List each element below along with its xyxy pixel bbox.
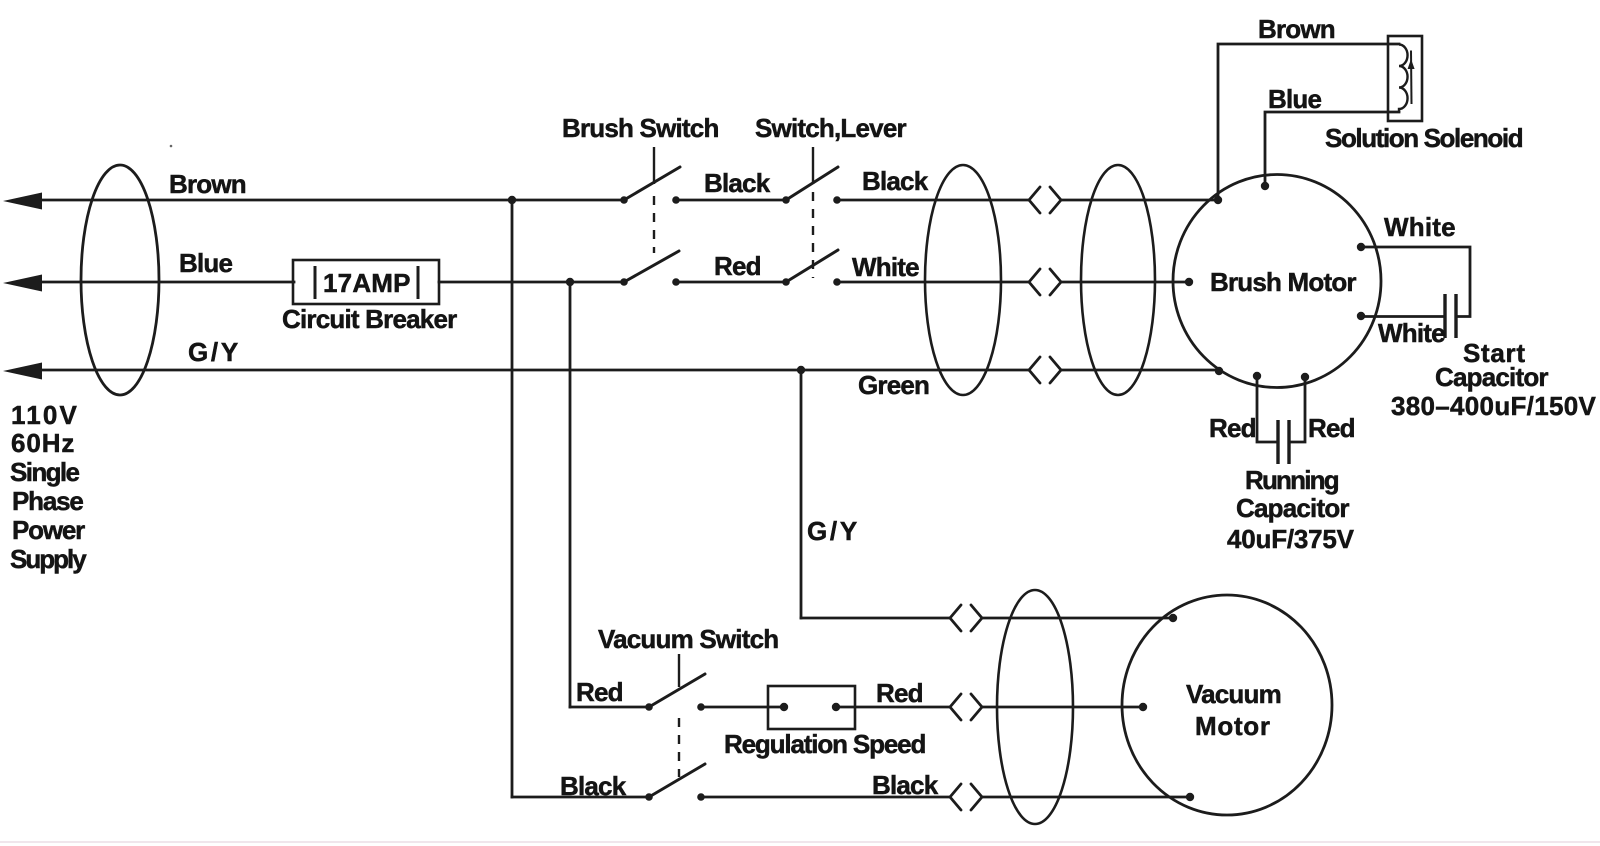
svg-text:Solution Solenoid: Solution Solenoid xyxy=(1325,123,1523,153)
svg-text:Capacitor: Capacitor xyxy=(1435,362,1548,392)
svg-text:Brown: Brown xyxy=(169,169,246,199)
svg-text:17AMP: 17AMP xyxy=(323,268,411,298)
svg-text:Regulation Speed: Regulation Speed xyxy=(724,729,925,759)
svg-text:Circuit Breaker: Circuit Breaker xyxy=(282,304,457,334)
svg-text:Brown: Brown xyxy=(1258,14,1335,44)
svg-text:Vacuum: Vacuum xyxy=(1186,679,1281,709)
svg-text:Motor: Motor xyxy=(1195,711,1271,741)
svg-text:Supply: Supply xyxy=(10,544,87,574)
svg-text:Red: Red xyxy=(576,677,623,707)
svg-text:Phase: Phase xyxy=(12,486,83,516)
svg-text:Red: Red xyxy=(1209,413,1256,443)
svg-text:380–400uF/150V: 380–400uF/150V xyxy=(1391,391,1596,421)
svg-text:Vacuum Switch: Vacuum Switch xyxy=(598,624,778,654)
svg-text:Brush Motor: Brush Motor xyxy=(1210,267,1356,297)
svg-text:Single: Single xyxy=(10,457,80,487)
svg-text:Black: Black xyxy=(872,770,939,800)
svg-text:Red: Red xyxy=(714,251,761,281)
svg-text:Black: Black xyxy=(862,166,929,196)
svg-text:Running: Running xyxy=(1245,465,1339,495)
svg-text:60Hz: 60Hz xyxy=(11,428,75,458)
svg-text:G/Y: G/Y xyxy=(188,337,241,367)
svg-text:110V: 110V xyxy=(11,400,79,430)
svg-text:Brush Switch: Brush Switch xyxy=(562,113,719,143)
svg-text:Red: Red xyxy=(1308,413,1355,443)
svg-text:Red: Red xyxy=(876,678,923,708)
svg-text:Green: Green xyxy=(858,370,929,400)
svg-text:G/Y: G/Y xyxy=(807,516,860,546)
svg-text:White: White xyxy=(852,252,919,282)
svg-text:Black: Black xyxy=(560,771,627,801)
svg-text:Blue: Blue xyxy=(179,248,232,278)
svg-text:Capacitor: Capacitor xyxy=(1236,493,1349,523)
svg-text:Power: Power xyxy=(12,515,85,545)
svg-text:40uF/375V: 40uF/375V xyxy=(1227,524,1355,554)
svg-text:Blue: Blue xyxy=(1268,84,1321,114)
svg-text:White: White xyxy=(1378,318,1445,348)
svg-text:White: White xyxy=(1384,212,1456,242)
svg-text:Switch,Lever: Switch,Lever xyxy=(755,113,906,143)
svg-text:Black: Black xyxy=(704,168,771,198)
